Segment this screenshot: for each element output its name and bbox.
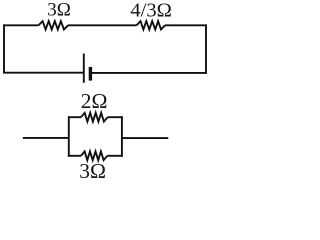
wire top branch, right segment xyxy=(108,116,123,118)
wire top side, middle segment xyxy=(68,24,137,26)
wire bottom side, left segment (to battery) xyxy=(3,72,84,74)
resistor R1 3Ω (top-left of loop) xyxy=(39,21,69,29)
wire right side of loop xyxy=(205,24,207,73)
battery cell: short plate (negative terminal) xyxy=(89,67,92,81)
label 2Ω (value of top parallel resistor) xyxy=(81,89,108,113)
wire right junction bar of parallel network xyxy=(121,116,123,156)
wire right lead of parallel network xyxy=(122,137,168,139)
battery cell: long plate (positive terminal) xyxy=(83,54,85,83)
resistor R2 4/3Ω (top-right of loop) xyxy=(137,21,166,29)
svg-text:3Ω: 3Ω xyxy=(47,0,71,21)
wire top branch, left segment xyxy=(68,116,81,118)
wire bottom branch, right segment xyxy=(107,155,123,157)
resistor 2Ω (top parallel branch) xyxy=(81,113,108,122)
label 4/3Ω (value of R2) xyxy=(130,0,172,21)
wire bottom branch, left segment xyxy=(68,155,81,157)
resistor 3Ω (bottom parallel branch) xyxy=(81,151,107,160)
svg-text:4/3Ω: 4/3Ω xyxy=(130,0,172,21)
wire bottom side, right segment (from battery) xyxy=(90,72,206,74)
svg-text:2Ω: 2Ω xyxy=(81,89,108,113)
svg-text:3Ω: 3Ω xyxy=(79,159,106,178)
label 3Ω (value of R1) xyxy=(47,0,71,21)
label 3Ω (value of bottom parallel resistor) xyxy=(79,159,106,183)
wire top side, right segment xyxy=(165,24,207,26)
wire left side of loop xyxy=(3,24,5,73)
wire left lead of parallel network xyxy=(23,137,69,139)
wire left junction bar of parallel network xyxy=(68,116,70,156)
wire top side, left segment xyxy=(3,24,38,26)
